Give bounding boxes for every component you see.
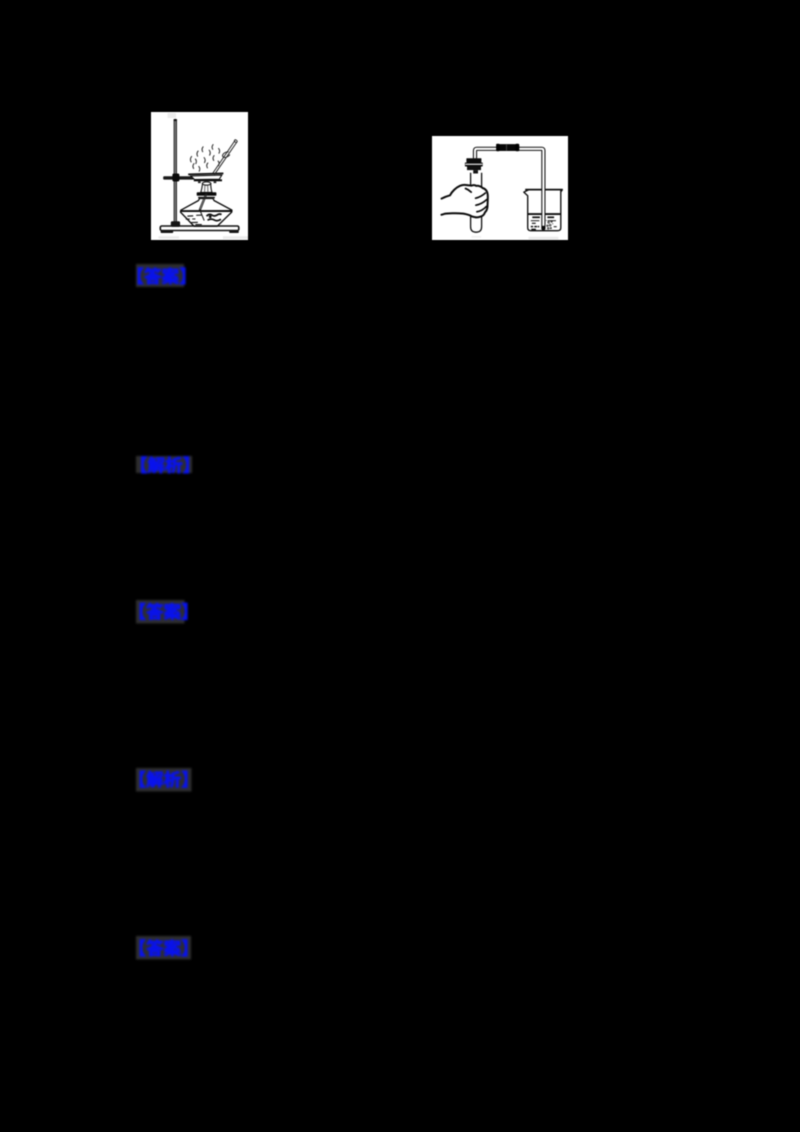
water dashes right: [547, 216, 554, 218]
iron ring under dish: [194, 179, 222, 181]
hand holding tube: [441, 185, 487, 217]
alcohol level line: [181, 210, 232, 212]
burner flame: [201, 184, 212, 193]
beaker body: [524, 190, 561, 231]
beaker rim: [525, 189, 563, 191]
water dashes left: [532, 216, 540, 218]
stopper: [466, 158, 481, 162]
alcohol dashes: [187, 215, 193, 217]
test tube: [471, 173, 482, 232]
bent delivery tube over beaker: [475, 149, 543, 229]
finger creases: [466, 189, 487, 212]
clamp arm: [163, 176, 194, 179]
wick: [199, 194, 205, 210]
tube tip in water: [542, 226, 545, 230]
steam wisps: [190, 145, 219, 172]
label: answer 2: [130, 594, 202, 630]
faint scan patches: [168, 113, 177, 118]
lamp body: [181, 199, 232, 226]
glass stirring rod: [213, 141, 235, 174]
floor shadows: [472, 236, 482, 238]
water line: [528, 213, 561, 215]
label: analysis 1: [130, 450, 202, 486]
rubber connector: [497, 144, 520, 151]
label: answer 1: [130, 258, 202, 294]
stand base: [160, 226, 239, 231]
rod curl: [223, 152, 230, 158]
scribble (label) in lamp: [207, 214, 222, 216]
stand rod: [174, 120, 177, 227]
figure: gas-tightness check (right): [432, 136, 568, 240]
figure: evaporation apparatus (left): [151, 112, 248, 240]
label: answer 3: [130, 930, 202, 966]
label: analysis 2: [130, 762, 202, 798]
burner cap: [197, 192, 217, 196]
bubbles at tube mouth: [547, 221, 553, 229]
clamp knob: [172, 174, 179, 182]
evaporating dish: [188, 173, 223, 174]
